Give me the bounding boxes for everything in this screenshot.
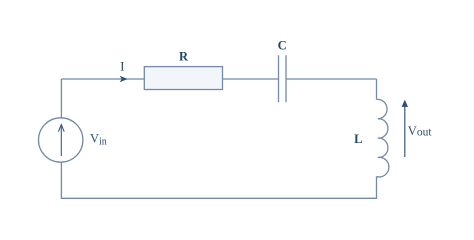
- svg-text:Vout: Vout: [408, 124, 433, 139]
- svg-text:C: C: [278, 39, 287, 53]
- svg-text:R: R: [179, 49, 189, 63]
- svg-text:I: I: [120, 59, 124, 73]
- svg-text:Vin: Vin: [90, 132, 107, 148]
- svg-text:L: L: [354, 132, 362, 146]
